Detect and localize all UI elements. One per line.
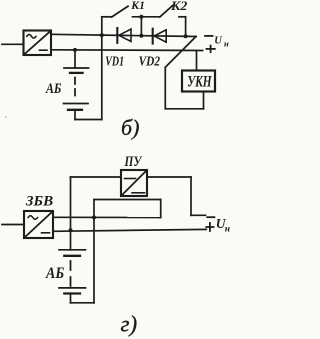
svg-text:г): г) (121, 311, 138, 336)
svg-text:VD2: VD2 (139, 54, 160, 69)
svg-text:VD1: VD1 (105, 54, 124, 69)
svg-text:н: н (225, 224, 230, 234)
svg-text:АБ: АБ (45, 265, 64, 282)
svg-text:АБ: АБ (45, 81, 62, 97)
svg-text:К2: К2 (170, 0, 187, 13)
svg-text:б): б) (121, 115, 139, 140)
svg-text:УКН: УКН (187, 73, 212, 90)
svg-text:н: н (224, 39, 229, 49)
svg-text:ПУ: ПУ (124, 154, 143, 170)
svg-text:К1: К1 (130, 0, 145, 12)
svg-text:ЗБВ: ЗБВ (25, 193, 53, 209)
